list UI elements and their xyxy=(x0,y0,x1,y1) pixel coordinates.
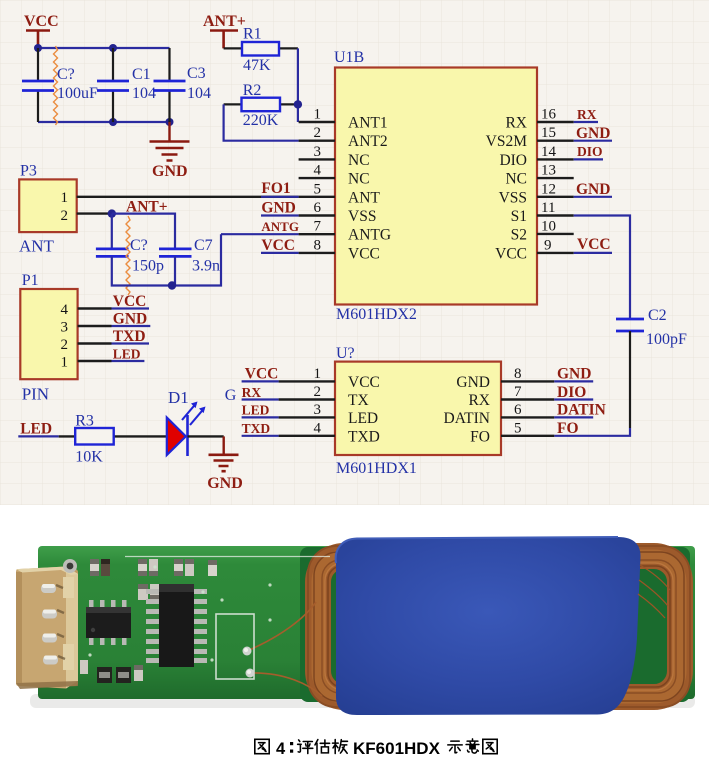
photo: SMD parts top row xyxy=(90,559,217,576)
schematic background xyxy=(0,0,709,505)
svg-text:VSS: VSS xyxy=(499,189,527,206)
net label VCC (U? pin1) xyxy=(242,366,279,383)
capacitor C2 100pF xyxy=(616,307,687,428)
wire top bus of capacitor bank xyxy=(38,47,170,49)
svg-text:U1B: U1B xyxy=(334,49,364,66)
svg-text:NC: NC xyxy=(348,152,370,169)
svg-text:DATIN: DATIN xyxy=(444,410,491,427)
svg-text:R1: R1 xyxy=(243,26,262,43)
photo: SMD parts mid xyxy=(138,584,160,600)
svg-text:VCC: VCC xyxy=(495,245,527,262)
photo: board shadow xyxy=(30,694,695,708)
svg-text:DIO: DIO xyxy=(499,152,527,169)
svg-text:VCC: VCC xyxy=(348,374,380,391)
net label TXD (U? pin4) xyxy=(242,421,279,436)
svg-text:S2: S2 xyxy=(511,227,527,244)
svg-text:ANTG: ANTG xyxy=(348,227,391,244)
net label RX with G (U? pin2) xyxy=(225,385,279,404)
svg-text:10K: 10K xyxy=(75,449,103,466)
svg-text:LED: LED xyxy=(348,410,378,427)
svg-text:100uF: 100uF xyxy=(57,85,98,102)
node junction C1 bottom xyxy=(109,118,117,126)
net label GND (pin15) xyxy=(574,125,612,142)
node junction caps bottom xyxy=(168,281,176,289)
ground GND (D1) xyxy=(207,436,243,492)
photo: solder joints xyxy=(243,647,252,656)
svg-text:G: G xyxy=(225,387,237,404)
net label GND (U1B pin6) xyxy=(261,200,299,217)
wire P3 pin1 to U1B pin5 (net FO1) xyxy=(77,196,299,198)
net label TXD (P1 pin2) xyxy=(112,328,150,345)
svg-text:VCC: VCC xyxy=(261,237,295,254)
ground GND (capacitor bank) xyxy=(150,122,190,180)
svg-text:150p: 150p xyxy=(132,258,164,275)
svg-text:RX: RX xyxy=(577,107,597,122)
wire R1 output down to pin 1 xyxy=(297,48,299,122)
svg-text:C?: C? xyxy=(57,66,75,83)
svg-text:ANTG: ANTG xyxy=(261,219,299,234)
net label ANTG (U1B pin7) xyxy=(221,219,299,234)
photo: silkscreen rectangle xyxy=(216,614,254,679)
svg-text:DIO: DIO xyxy=(577,144,603,159)
svg-text:GND: GND xyxy=(456,374,490,391)
svg-text:FO1: FO1 xyxy=(261,180,290,197)
photo: SOIC-8 IC xyxy=(86,600,131,645)
wire ANT+ node to caps xyxy=(112,214,175,249)
net label LED (R3 input) xyxy=(18,421,58,438)
char ban3 xyxy=(333,740,348,754)
svg-text:16: 16 xyxy=(541,107,557,123)
svg-text:M601HDX2: M601HDX2 xyxy=(336,306,417,323)
svg-text:ANT: ANT xyxy=(348,189,380,206)
resistor R1 47K xyxy=(224,26,298,75)
svg-text:4: 4 xyxy=(314,421,322,437)
svg-text:14: 14 xyxy=(541,144,557,160)
caption figure title xyxy=(255,739,269,753)
connector P1 body xyxy=(20,272,77,404)
wire D1 cathode to GND xyxy=(188,435,224,437)
svg-text:2: 2 xyxy=(314,384,322,400)
photo: small vias xyxy=(88,565,271,661)
svg-text:VSS: VSS xyxy=(348,208,376,225)
svg-text:ANT+: ANT+ xyxy=(203,13,246,30)
wire R2 left to pin 2 xyxy=(224,104,299,140)
photo: silkscreen line top xyxy=(125,556,330,558)
net label DIO (U? pin7) xyxy=(554,384,593,401)
svg-text:P1: P1 xyxy=(22,272,39,289)
node junction R2/R1 xyxy=(294,100,302,108)
svg-text:TXD: TXD xyxy=(113,328,146,345)
svg-text:9: 9 xyxy=(544,237,552,253)
capacitor C? 100uF xyxy=(22,46,98,125)
svg-text:FO: FO xyxy=(470,428,490,445)
svg-text:GND: GND xyxy=(113,311,147,328)
svg-text:4: 4 xyxy=(314,163,322,179)
svg-text:KF601HDX: KF601HDX xyxy=(353,739,441,758)
svg-text:LED: LED xyxy=(20,421,52,438)
svg-text:7: 7 xyxy=(514,384,522,400)
node junction GND/bottom bus xyxy=(166,118,174,126)
svg-text:ANT1: ANT1 xyxy=(348,115,388,132)
svg-text:FO: FO xyxy=(557,420,579,437)
char ping2 xyxy=(298,740,313,754)
photo: green PCB board xyxy=(38,546,695,699)
pin numbers U1B left xyxy=(314,107,322,254)
svg-text:C3: C3 xyxy=(187,65,206,82)
svg-text:VCC: VCC xyxy=(245,366,279,383)
svg-text:LED: LED xyxy=(113,347,141,362)
svg-text:3: 3 xyxy=(314,402,322,418)
svg-text:VCC: VCC xyxy=(348,245,380,262)
photo: darker right section of PCB xyxy=(300,547,690,702)
svg-text:8: 8 xyxy=(514,366,522,382)
svg-text:S1: S1 xyxy=(511,208,527,225)
svg-text:15: 15 xyxy=(541,125,556,141)
svg-text:VCC: VCC xyxy=(577,236,611,253)
svg-text:4: 4 xyxy=(61,302,69,318)
svg-text:GND: GND xyxy=(576,181,610,198)
svg-text:C1: C1 xyxy=(132,66,151,83)
node junction VCC/top bus xyxy=(34,44,42,52)
power symbol VCC (top-left) xyxy=(24,13,59,48)
svg-text:D1: D1 xyxy=(168,388,189,407)
wire pin lines U? right (pins 8-5) xyxy=(501,381,554,435)
svg-text:7: 7 xyxy=(314,219,322,235)
svg-text:10: 10 xyxy=(541,219,556,235)
svg-text:RX: RX xyxy=(468,392,490,409)
svg-text:P3: P3 xyxy=(20,163,37,180)
char tu2 (2) xyxy=(483,739,497,753)
svg-text:1: 1 xyxy=(314,366,322,382)
svg-text:1: 1 xyxy=(61,355,69,371)
pin numbers U1B right xyxy=(541,107,557,254)
capacitor C1 104 xyxy=(97,48,156,122)
svg-text:DATIN: DATIN xyxy=(557,402,606,419)
net label LED (U? pin3) xyxy=(242,403,279,418)
svg-text:GND: GND xyxy=(207,475,243,492)
svg-text:3: 3 xyxy=(314,144,322,160)
svg-text:C?: C? xyxy=(130,237,148,254)
connector P3 body xyxy=(19,163,77,256)
net label VCC (P1 pin4) xyxy=(112,293,150,310)
svg-text:U?: U? xyxy=(336,345,355,362)
svg-text:3.9n: 3.9n xyxy=(192,258,220,275)
photo: beige connector header xyxy=(16,567,78,690)
svg-text:6: 6 xyxy=(314,200,322,216)
svg-text:VCC: VCC xyxy=(113,293,147,310)
net label FO1 (pin5) xyxy=(261,180,299,197)
svg-text:R3: R3 xyxy=(75,413,94,430)
op-amp U1B body xyxy=(334,49,537,323)
svg-text:1: 1 xyxy=(314,107,322,123)
svg-text:4: 4 xyxy=(276,740,286,758)
svg-text:ANT: ANT xyxy=(19,237,55,256)
capacitor C? 150p xyxy=(96,216,164,295)
svg-text:M601HDX1: M601HDX1 xyxy=(336,460,417,477)
svg-text:12: 12 xyxy=(541,181,556,197)
svg-text:8: 8 xyxy=(314,237,322,253)
net label GND (P1 pin3) xyxy=(112,311,151,328)
pin numbers U? right xyxy=(514,366,522,437)
resistor R3 10K xyxy=(59,413,167,466)
svg-text:RX: RX xyxy=(242,385,262,400)
svg-text:PIN: PIN xyxy=(22,385,49,404)
photo: antenna coil winding (copper ring) xyxy=(308,546,690,707)
node junction ANT+ xyxy=(108,209,116,217)
svg-text:C7: C7 xyxy=(194,237,213,254)
svg-text:C2: C2 xyxy=(648,307,667,324)
svg-text:11: 11 xyxy=(541,200,555,216)
LED D1 xyxy=(167,388,206,456)
char shi4 xyxy=(448,741,462,753)
svg-text:104: 104 xyxy=(187,85,211,102)
svg-text:NC: NC xyxy=(505,171,527,188)
net label LED (P1 pin1) xyxy=(112,347,145,362)
pin names U1B right xyxy=(486,115,528,263)
svg-text:GND: GND xyxy=(152,163,188,180)
photo: blue antenna pillow xyxy=(336,537,641,715)
svg-text:LED: LED xyxy=(242,403,270,418)
svg-text:GND: GND xyxy=(576,125,610,142)
IC U? body xyxy=(335,345,501,477)
net label DIO (pin14) xyxy=(574,144,603,159)
net label GND (pin12) xyxy=(574,181,612,198)
capacitor C3 104 xyxy=(154,48,212,122)
pin names U? right xyxy=(444,374,491,445)
caption latin text KF601HDX xyxy=(353,739,441,758)
svg-text:DIO: DIO xyxy=(557,384,586,401)
svg-text:GND: GND xyxy=(557,366,591,383)
photo: coil hookup wires xyxy=(247,602,322,696)
wire P3 pin2 to ANT+ node xyxy=(77,212,112,214)
photo: SSOP-16 IC xyxy=(146,584,207,667)
pin names U1B left xyxy=(348,115,391,263)
net label VCC (pin9) xyxy=(574,236,612,253)
svg-text:220K: 220K xyxy=(243,112,279,129)
svg-text:TXD: TXD xyxy=(242,421,271,436)
svg-text:104: 104 xyxy=(132,85,156,102)
svg-text:1: 1 xyxy=(61,190,69,206)
power symbol ANT+ (top) xyxy=(203,13,246,48)
photo: screw hole top-left xyxy=(63,559,77,573)
svg-text:2: 2 xyxy=(61,208,69,224)
capacitor C7 3.9n xyxy=(159,237,220,275)
svg-text:RX: RX xyxy=(505,115,527,132)
svg-text:R2: R2 xyxy=(243,82,262,99)
svg-text:TXD: TXD xyxy=(348,428,380,445)
net label VCC (U1B pin8) xyxy=(261,237,299,254)
wire pin lines U? left (pins 1-4) xyxy=(279,381,335,435)
wire bottom bus of capacitor bank xyxy=(38,121,170,123)
resistor R2 220K xyxy=(224,82,298,129)
pin numbers U? left xyxy=(314,366,322,437)
photo: coil wires right of pillow xyxy=(638,565,670,618)
wire pin lines P1 xyxy=(78,309,112,362)
pin names U? left xyxy=(348,374,380,445)
svg-text:100pF: 100pF xyxy=(646,331,687,348)
svg-text:2: 2 xyxy=(314,125,322,141)
wire pin11 S1 to C2 xyxy=(574,216,630,320)
svg-text:TX: TX xyxy=(348,392,369,409)
svg-text:2: 2 xyxy=(61,337,69,353)
svg-text:5: 5 xyxy=(514,421,522,437)
net label RX (pin16) xyxy=(574,107,598,122)
char gu1 xyxy=(315,740,330,754)
svg-text:VCC: VCC xyxy=(24,13,59,30)
char tu2 (1) xyxy=(255,739,269,753)
svg-text:5: 5 xyxy=(314,181,322,197)
wire caps bottom bus to ANTG xyxy=(112,234,221,285)
wire pin lines U1B left (pins 1-8) xyxy=(299,122,335,253)
svg-text:3: 3 xyxy=(61,320,69,336)
svg-text:VS2M: VS2M xyxy=(486,133,528,150)
svg-text:47K: 47K xyxy=(243,57,271,74)
net label GND (U? pin8) xyxy=(554,366,593,383)
svg-text:ANT2: ANT2 xyxy=(348,133,388,150)
svg-text:GND: GND xyxy=(261,200,295,217)
photo: SMD parts bottom xyxy=(80,660,143,683)
node junction C1 top xyxy=(109,44,117,52)
svg-text:6: 6 xyxy=(514,402,522,418)
wire pin lines U1B right (pins 16-9) xyxy=(537,122,574,253)
char yi4 xyxy=(466,739,479,753)
svg-text:13: 13 xyxy=(541,163,556,179)
wire C2 bottom to FO xyxy=(554,428,630,436)
svg-text:NC: NC xyxy=(348,171,370,188)
net label DATIN (U? pin6) xyxy=(554,402,606,419)
